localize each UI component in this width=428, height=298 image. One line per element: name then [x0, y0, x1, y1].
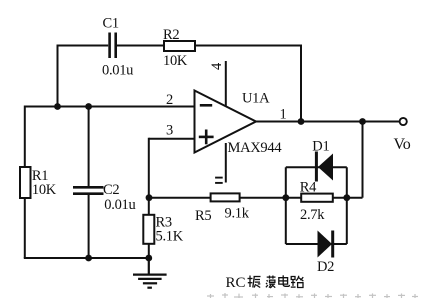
svg-text:RC: RC — [226, 275, 246, 291]
svg-text:4: 4 — [209, 62, 225, 70]
svg-text:2: 2 — [166, 92, 173, 108]
svg-text:3: 3 — [166, 123, 173, 139]
svg-text:10K: 10K — [163, 53, 188, 69]
svg-text:R2: R2 — [163, 27, 179, 43]
svg-text:D2: D2 — [317, 259, 334, 275]
svg-text:9.1k: 9.1k — [225, 205, 250, 221]
svg-text:D1: D1 — [312, 139, 329, 155]
svg-text:1: 1 — [280, 107, 287, 123]
svg-text:U1A: U1A — [242, 91, 270, 107]
svg-text:0.01u: 0.01u — [102, 63, 133, 79]
svg-text:Vo: Vo — [394, 136, 411, 153]
svg-text:0.01u: 0.01u — [104, 197, 135, 213]
svg-text:10K: 10K — [32, 182, 57, 198]
svg-text:R5: R5 — [195, 208, 211, 224]
svg-text:C2: C2 — [103, 182, 119, 198]
svg-text:5.1K: 5.1K — [156, 229, 184, 245]
svg-text:R4: R4 — [300, 180, 317, 196]
svg-text:MAX944: MAX944 — [228, 140, 283, 156]
svg-text:C1: C1 — [103, 16, 119, 32]
svg-text:2.7k: 2.7k — [300, 207, 325, 223]
